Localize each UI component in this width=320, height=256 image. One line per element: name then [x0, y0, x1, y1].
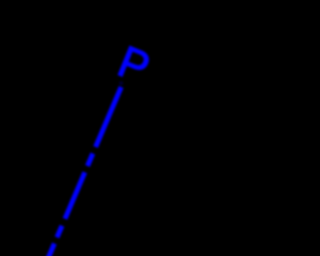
wire dash 4: [57, 226, 62, 238]
wire solid segment: [96, 87, 122, 147]
node dot (faint): [119, 81, 123, 85]
wire dash 5: [47, 244, 54, 256]
wire dash 3: [65, 172, 85, 219]
wire dash 2: [88, 154, 93, 167]
